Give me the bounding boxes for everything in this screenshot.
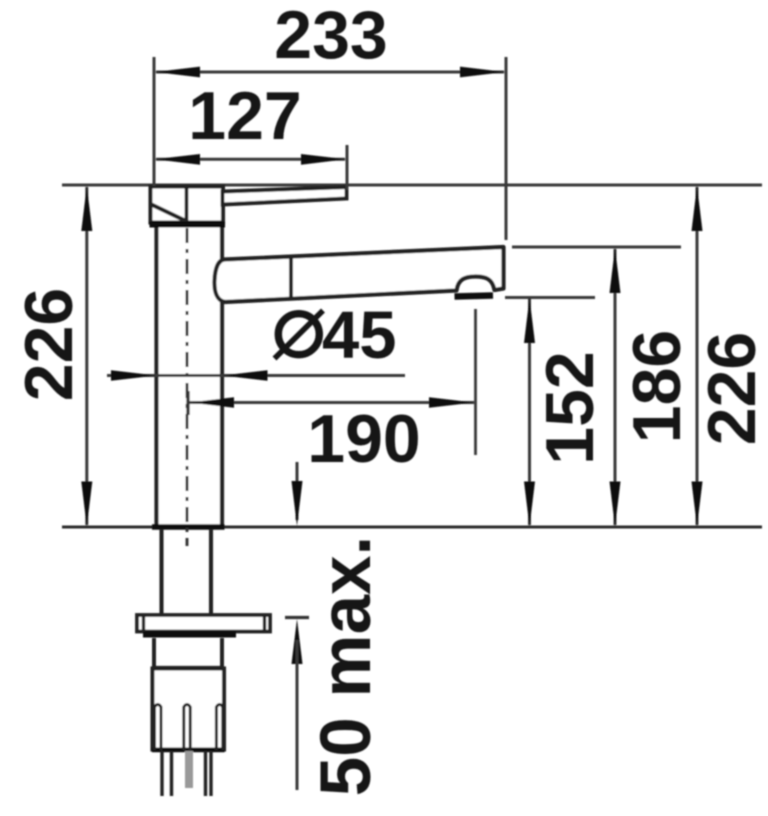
dimension leader O45 — [107, 374, 405, 377]
spout joint line — [289, 257, 293, 299]
head diagonal lever hinge line — [152, 205, 188, 222]
spout outlet centerline — [474, 309, 477, 455]
svg-text:152: 152 — [532, 351, 608, 464]
svg-text:226: 226 — [694, 332, 768, 445]
stud channel left — [155, 705, 162, 751]
dimension 190 — [186, 391, 189, 415]
spout (with rounded joint nose and aerator dome) — [214, 247, 503, 302]
dimension 233 — [153, 57, 156, 186]
svg-text:50 max.: 50 max. — [307, 536, 386, 797]
handle lever — [223, 187, 347, 205]
pull-out hose middle (grey) — [185, 751, 193, 788]
top reference line (faucet top level) — [62, 184, 762, 187]
body bottom thick edge on counter — [152, 524, 225, 530]
dimension 152 — [505, 296, 595, 299]
head bottom thick line — [150, 222, 226, 228]
svg-text:127: 127 — [188, 78, 301, 154]
mounting nut section — [152, 638, 156, 667]
counter / sink top line — [62, 526, 762, 529]
dimension 226 right — [696, 187, 699, 525]
mounting flange plate — [137, 615, 270, 632]
faucet body column — [157, 224, 223, 527]
aerator outlet face (thick) — [455, 296, 494, 297]
mounting block with studs — [153, 669, 225, 750]
head inner vertical line — [185, 188, 189, 222]
under-counter shank — [159, 529, 163, 615]
body centerline (dash-dot) — [186, 228, 189, 546]
dimension 50 max — [296, 462, 299, 520]
dimension 226 left — [85, 187, 88, 525]
svg-text:233: 233 — [274, 0, 387, 73]
svg-text:45: 45 — [322, 298, 397, 373]
stud channel middle — [184, 705, 190, 751]
mixer head (cartridge housing) — [151, 187, 224, 223]
dimension 127 — [346, 145, 349, 190]
stud channel right — [216, 705, 222, 751]
rubber gasket (solid) — [143, 632, 236, 638]
svg-text:190: 190 — [307, 401, 420, 477]
dimension 186 — [512, 246, 681, 249]
svg-text:226: 226 — [11, 288, 87, 401]
supply hose left (outline) — [160, 751, 163, 796]
supply hose right (outline) — [204, 751, 207, 796]
svg-text:186: 186 — [619, 330, 695, 443]
